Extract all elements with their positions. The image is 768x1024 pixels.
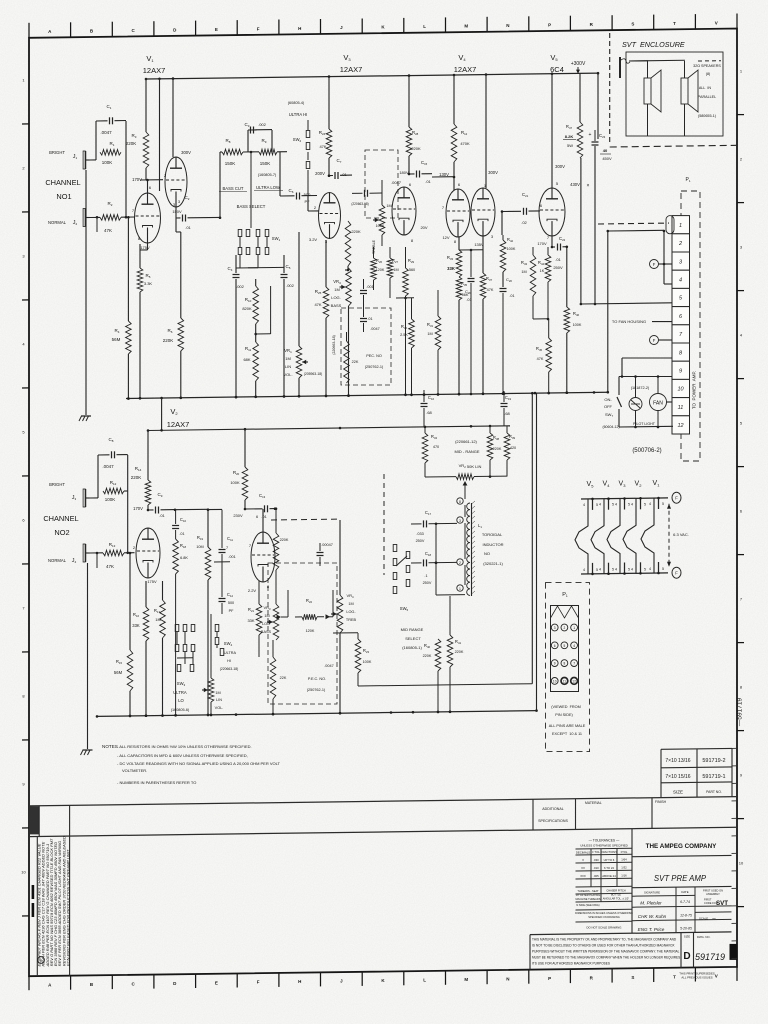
svg-text:PARALLEL: PARALLEL xyxy=(698,95,716,99)
svg-text:3.3K: 3.3K xyxy=(144,281,153,286)
capacitor C15 xyxy=(399,160,432,184)
svg-text:230V: 230V xyxy=(233,513,243,518)
svg-text:F: F xyxy=(653,262,656,267)
additional specifications cell xyxy=(533,799,568,830)
enclosure labels xyxy=(693,61,721,118)
svg-text:47K: 47K xyxy=(487,288,494,292)
svg-text:MACHINE THREADS: MACHINE THREADS xyxy=(575,897,600,901)
svg-text:BRIGHT: BRIGHT xyxy=(49,482,65,487)
svg-text:5: 5 xyxy=(662,567,664,571)
svg-text:+: + xyxy=(589,132,592,138)
svg-text:(500706-2): (500706-2) xyxy=(632,448,661,454)
resistor R2 xyxy=(90,152,135,233)
svg-text:.001: .001 xyxy=(228,555,235,559)
svg-text:2: 2 xyxy=(678,241,682,247)
svg-text:ULTRA LOW: ULTRA LOW xyxy=(256,185,280,190)
capacitor C6 xyxy=(280,152,317,204)
svg-text:LOG.: LOG. xyxy=(331,295,341,300)
wire pin5 feed xyxy=(580,146,672,305)
svg-text:591719-2: 591719-2 xyxy=(702,758,725,764)
svg-text:5-20-85: 5-20-85 xyxy=(680,927,692,931)
svg-text:47K: 47K xyxy=(319,144,326,149)
svg-text:PURPOSES WITHOUT THE WRITTEN P: PURPOSES WITHOUT THE WRITTEN PERMISSION … xyxy=(532,950,680,954)
resistor R13 xyxy=(90,491,135,569)
svg-text:VOL.: VOL. xyxy=(215,706,224,710)
svg-text:ULTRA: ULTRA xyxy=(224,651,237,655)
svg-text:47K: 47K xyxy=(106,564,114,569)
capacitor .01 node xyxy=(360,305,373,332)
svg-text:HI: HI xyxy=(227,659,231,663)
svg-text:BASS: BASS xyxy=(261,630,272,634)
svg-text:180V: 180V xyxy=(399,170,409,175)
svg-text:LIN: LIN xyxy=(285,364,291,369)
spec band top line xyxy=(29,797,737,806)
svg-text:ITS USE FOR AUTHORIZED MAGNAVO: ITS USE FOR AUTHORIZED MAGNAVOX PURPOSES xyxy=(532,962,610,966)
svg-text:250V: 250V xyxy=(423,581,432,585)
svg-text:(220663-18): (220663-18) xyxy=(332,335,336,355)
svg-text:430V: 430V xyxy=(570,182,580,187)
svg-text:BRIGHT: BRIGHT xyxy=(49,150,65,155)
svg-text:47K: 47K xyxy=(104,228,112,233)
svg-text:4: 4 xyxy=(573,644,575,648)
svg-text:1/16: 1/16 xyxy=(621,874,627,878)
svg-text:420: 420 xyxy=(510,446,516,450)
svg-text:220K: 220K xyxy=(411,146,421,151)
capacitor .0047 treble ch1 xyxy=(351,180,401,206)
svg-text:PF: PF xyxy=(229,609,235,613)
speaker right xyxy=(629,60,698,136)
svg-text:591719: 591719 xyxy=(695,952,725,962)
material cell xyxy=(576,799,602,830)
svg-text:.001: .001 xyxy=(366,285,373,289)
resistor R30 xyxy=(396,297,414,396)
svg-text:9: 9 xyxy=(679,369,682,375)
svg-text:1M: 1M xyxy=(348,602,353,606)
svg-text:5: 5 xyxy=(662,502,664,506)
capacitor C9 xyxy=(148,492,176,518)
svg-text:6: 6 xyxy=(554,644,556,648)
label CHANNEL NO2 xyxy=(43,514,78,537)
legal block xyxy=(530,932,738,970)
svg-text:T: T xyxy=(673,21,676,26)
potentiometer VR4 treble ch2 xyxy=(331,520,357,715)
svg-text:12AX7: 12AX7 xyxy=(340,65,363,74)
tube V2 second triode xyxy=(248,509,275,593)
svg-text:2.2V: 2.2V xyxy=(248,588,257,593)
svg-text:12AX7: 12AX7 xyxy=(167,420,190,429)
resistor R40 xyxy=(423,595,441,713)
svg-text:(160805-7): (160805-7) xyxy=(258,173,277,177)
svg-text:4: 4 xyxy=(679,278,682,284)
svg-text:(320221-1): (320221-1) xyxy=(483,561,503,566)
jack J2 xyxy=(48,209,89,227)
capacitor .00047 ch2 xyxy=(317,543,333,566)
svg-text:4: 4 xyxy=(599,503,601,507)
svg-text:BASS CUT: BASS CUT xyxy=(223,186,244,191)
resistor R5 xyxy=(137,243,152,400)
resistor 220K V3 cathode follower xyxy=(345,221,361,270)
svg-text:220K: 220K xyxy=(423,654,432,658)
svg-text:ECN-P807 RELEASED FOR PRODUCTI: ECN-P807 RELEASED FOR PRODUCTION SVT PRE… xyxy=(66,849,71,966)
svg-text:N: N xyxy=(506,976,509,981)
resistor R31 xyxy=(427,290,441,396)
svg-text:ULTRA HI: ULTRA HI xyxy=(289,112,308,117)
svg-text:.01: .01 xyxy=(509,294,514,298)
svg-text:5: 5 xyxy=(644,502,646,506)
svg-text:8: 8 xyxy=(459,500,461,504)
svg-text:4: 4 xyxy=(583,503,585,507)
resistor R14 xyxy=(131,431,151,512)
svg-text:(220661-12): (220661-12) xyxy=(455,439,477,444)
wire SW3 drops ch2 xyxy=(177,632,193,664)
svg-text:12V: 12V xyxy=(442,235,449,240)
svg-text:6-7-74: 6-7-74 xyxy=(680,900,690,904)
capacitor C23 xyxy=(589,130,612,304)
svg-text:7: 7 xyxy=(573,662,575,666)
svg-text:± TOL: ± TOL xyxy=(592,850,600,854)
capacitor C21 xyxy=(501,192,540,235)
svg-text:(250762-1): (250762-1) xyxy=(307,688,326,692)
svg-text:CHANNEL: CHANNEL xyxy=(45,178,80,187)
label 300V V5 xyxy=(552,74,565,188)
svg-text:.01: .01 xyxy=(466,298,471,302)
svg-text:1M: 1M xyxy=(393,268,398,272)
svg-text:120K: 120K xyxy=(306,629,315,633)
svg-text:220K: 220K xyxy=(126,141,137,146)
long vertical mix line B xyxy=(535,393,538,712)
svg-text:450V: 450V xyxy=(602,156,612,161)
svg-text:S: S xyxy=(631,21,634,26)
resistor R20 xyxy=(230,429,247,509)
svg-text:DWG. NO.: DWG. NO. xyxy=(697,935,711,939)
svg-text:N SIDE (SEE DWG): N SIDE (SEE DWG) xyxy=(576,903,599,907)
resistor R9 xyxy=(243,138,287,166)
svg-text:PART NO.: PART NO. xyxy=(706,790,722,794)
svg-text:3.2V: 3.2V xyxy=(309,237,318,242)
svg-text:F: F xyxy=(675,496,678,501)
capacitor C16 xyxy=(421,390,435,427)
resistor R6 xyxy=(163,232,184,399)
capacitor C20 xyxy=(500,277,515,395)
dashed box tone ch2 xyxy=(268,563,337,704)
svg-text:.0047: .0047 xyxy=(370,327,380,331)
svg-text:D: D xyxy=(683,951,690,962)
label 430V xyxy=(570,182,589,189)
svg-text:4: 4 xyxy=(649,567,651,571)
svg-text:6.3 VAC.: 6.3 VAC. xyxy=(673,532,689,537)
capacitor C20b xyxy=(459,249,483,394)
svg-text:SIZE: SIZE xyxy=(673,790,683,795)
svg-text:12AX7: 12AX7 xyxy=(454,65,477,74)
svg-text:NO1: NO1 xyxy=(56,192,71,201)
svg-text:250V: 250V xyxy=(416,539,425,543)
jack J1 xyxy=(49,150,89,169)
svg-text:40: 40 xyxy=(603,148,608,153)
svg-text:.002: .002 xyxy=(258,122,267,127)
svg-text:UP TO 6: UP TO 6 xyxy=(604,858,615,862)
svg-text:X: X xyxy=(582,858,584,862)
svg-text:1/64: 1/64 xyxy=(621,858,627,862)
svg-text:PF: PF xyxy=(304,199,310,204)
resistor R39 xyxy=(504,426,516,477)
svg-text:PEC. NO: PEC. NO xyxy=(366,354,382,358)
svg-text:12: 12 xyxy=(572,680,576,684)
long vertical mix line A xyxy=(531,392,534,684)
svg-text:EXCEPT 10 & 11: EXCEPT 10 & 11 xyxy=(552,732,582,736)
svg-text:470: 470 xyxy=(433,445,439,449)
svg-text:INDUCTOR: INDUCTOR xyxy=(482,542,503,547)
svg-text:FIRST USED ON: FIRST USED ON xyxy=(703,889,723,893)
svg-text:300V: 300V xyxy=(181,150,191,155)
switch SW7 xyxy=(602,397,621,429)
svg-text:6.8K: 6.8K xyxy=(180,556,188,560)
svg-text:7×10 13/16: 7×10 13/16 xyxy=(665,758,690,764)
svg-text:100K: 100K xyxy=(507,247,516,251)
label 170V ch2 xyxy=(133,506,143,511)
resistor R41 xyxy=(447,596,464,713)
svg-text:150K: 150K xyxy=(225,161,236,166)
resistor R26 xyxy=(371,247,385,290)
svg-text:820K: 820K xyxy=(242,306,252,311)
svg-text:220K: 220K xyxy=(163,338,174,343)
capacitor C3 xyxy=(245,122,272,152)
label 300V V4 xyxy=(486,75,498,189)
svg-text:1M: 1M xyxy=(334,287,340,292)
svg-text:1: 1 xyxy=(459,587,461,591)
resistor R8 xyxy=(220,138,243,218)
svg-text:DO NOT SCALE DRAWING: DO NOT SCALE DRAWING xyxy=(587,926,622,930)
svg-text:33K: 33K xyxy=(447,266,455,271)
tube V5 6C4 xyxy=(537,181,565,246)
svg-text:10: 10 xyxy=(21,870,26,875)
wire V1 plate risers xyxy=(160,79,174,191)
label TO POWER AMP xyxy=(692,371,697,409)
capacitor C1 xyxy=(90,104,127,160)
svg-text:∼: ∼ xyxy=(712,916,716,922)
resistor R19 xyxy=(175,508,211,716)
svg-text:FIRST: FIRST xyxy=(704,897,712,901)
capacitor C17 xyxy=(411,510,457,543)
resistor R12 bright2 xyxy=(103,480,128,502)
svg-text:1: 1 xyxy=(573,626,575,630)
svg-text:5W: 5W xyxy=(567,143,573,148)
svg-text:BOTTLE: BOTTLE xyxy=(611,892,621,896)
svg-text:XXX: XXX xyxy=(580,874,586,878)
svg-text:.0047: .0047 xyxy=(324,664,334,668)
svg-text:— TOLERANCES —: — TOLERANCES — xyxy=(589,839,620,843)
signature block xyxy=(632,887,732,933)
svg-text:300V: 300V xyxy=(555,164,565,169)
svg-text:(8): (8) xyxy=(706,72,711,76)
tube V5 label xyxy=(550,53,564,74)
svg-text:F: F xyxy=(675,571,678,576)
svg-text:5: 5 xyxy=(628,503,630,507)
svg-text:FIT AFTER PLATING: FIT AFTER PLATING xyxy=(576,893,601,897)
resistor R23 xyxy=(333,633,532,686)
svg-text:100K: 100K xyxy=(105,497,116,502)
svg-text:5: 5 xyxy=(644,567,646,571)
svg-text:1M: 1M xyxy=(285,356,291,361)
svg-text:.00047: .00047 xyxy=(321,543,333,547)
tube V1 first triode xyxy=(132,185,161,250)
svg-text:175V: 175V xyxy=(140,245,150,250)
wire pilot bottom xyxy=(619,426,673,429)
svg-text:SVT: SVT xyxy=(716,900,728,907)
svg-text:ULTRA: ULTRA xyxy=(173,690,187,695)
svg-text:F: F xyxy=(257,980,260,985)
svg-text:MUST BE RETURNED TO THE MAGNAV: MUST BE RETURNED TO THE MAGNAVOX COMPANY… xyxy=(532,956,680,960)
svg-text:NORMAL: NORMAL xyxy=(48,220,67,225)
label PEC ch1 xyxy=(365,327,384,369)
resistor R4 xyxy=(112,216,132,400)
svg-text:SVT PRE AMP: SVT PRE AMP xyxy=(654,874,707,883)
svg-text:V: V xyxy=(715,20,718,25)
svg-text:L: L xyxy=(423,24,426,29)
svg-text:F: F xyxy=(257,26,260,31)
svg-text:DECIMALS: DECIMALS xyxy=(576,850,590,854)
labels bass select xyxy=(219,173,283,209)
revision header cell xyxy=(30,805,70,836)
svg-text:DIMENSIONS IN INCHES UNLESS OT: DIMENSIONS IN INCHES UNLESS OTHERWISE xyxy=(575,911,633,915)
svg-text:100K: 100K xyxy=(102,160,113,165)
svg-text:250V: 250V xyxy=(553,265,563,270)
resistor R42 xyxy=(500,235,516,287)
svg-text:1: 1 xyxy=(679,223,682,229)
resistor R29 xyxy=(403,247,415,396)
svg-text:SELECT: SELECT xyxy=(405,636,421,641)
svg-text:1M: 1M xyxy=(155,617,161,622)
wire J2 ground drop xyxy=(86,170,98,415)
svg-text:SPECIFICATIONS: SPECIFICATIONS xyxy=(538,819,568,823)
svg-text:2.5K: 2.5K xyxy=(400,333,408,337)
resistor R38 xyxy=(487,426,502,477)
resistor R45 xyxy=(536,319,552,394)
svg-text:E: E xyxy=(215,980,218,985)
svg-text:32Ω SPEAKERS: 32Ω SPEAKERS xyxy=(693,64,721,68)
potentiometer VR2 xyxy=(425,463,507,499)
svg-text:M: M xyxy=(464,24,468,29)
wire J4 ground xyxy=(0,0,1,1)
tube V1 second triode xyxy=(164,157,187,207)
svg-text:ABOVE 24: ABOVE 24 xyxy=(602,874,616,878)
svg-text:220K: 220K xyxy=(455,650,464,654)
svg-text:.01: .01 xyxy=(179,532,184,536)
jack J4 xyxy=(48,544,89,564)
svg-text:.01: .01 xyxy=(367,317,372,321)
svg-text:8: 8 xyxy=(564,662,566,666)
svg-text:5: 5 xyxy=(612,568,614,572)
svg-text:(580655-1): (580655-1) xyxy=(698,114,716,118)
wire V3a grid xyxy=(308,196,319,211)
resistor R35 xyxy=(456,277,469,395)
svg-text:170V: 170V xyxy=(537,241,547,246)
potentiometer treble ch1 xyxy=(372,180,392,254)
svg-text:220K: 220K xyxy=(351,229,361,234)
switch SW2 xyxy=(288,101,310,169)
svg-text:ADDITIONAL: ADDITIONAL xyxy=(542,807,564,811)
svg-text:E: E xyxy=(215,27,218,32)
svg-text:5: 5 xyxy=(612,503,614,507)
capacitor C8 xyxy=(90,437,128,498)
tube V3 label xyxy=(340,53,363,74)
svg-text:4: 4 xyxy=(615,503,617,507)
svg-text:150V: 150V xyxy=(172,209,182,214)
label mid range select xyxy=(401,627,424,650)
svg-text:DATE: DATE xyxy=(681,890,688,894)
svg-text:.01: .01 xyxy=(261,514,267,519)
svg-text:TO POWER AMP.: TO POWER AMP. xyxy=(692,371,697,409)
connector P1 side view xyxy=(666,177,700,461)
inductor L1 labels xyxy=(478,523,504,566)
resistor R28 xyxy=(406,76,421,173)
svg-text:7×10 15/16: 7×10 15/16 xyxy=(665,774,690,780)
label +300V xyxy=(571,61,586,74)
inductor L1 xyxy=(457,498,475,596)
svg-text:.68: .68 xyxy=(426,410,432,415)
svg-text:10: 10 xyxy=(677,387,684,393)
svg-text:1K: 1K xyxy=(540,269,545,273)
svg-text:.033: .033 xyxy=(416,532,423,536)
svg-text:BASS: BASS xyxy=(331,303,342,308)
svg-text:M: M xyxy=(464,977,468,982)
svg-text:SIZE: SIZE xyxy=(684,935,690,939)
svg-text:.02: .02 xyxy=(521,220,527,225)
svg-text:ENG T. Price: ENG T. Price xyxy=(638,927,665,932)
svg-text:ALL PREVIOUS ISSUES: ALL PREVIOUS ISSUES xyxy=(681,975,712,979)
svg-text:7: 7 xyxy=(226,546,228,550)
svg-text:N: N xyxy=(506,23,509,28)
svg-text:±TOL: ±TOL xyxy=(621,850,628,854)
capacitor C13 xyxy=(233,493,276,519)
svg-text:5: 5 xyxy=(596,568,598,572)
svg-text:FAN: FAN xyxy=(653,401,663,407)
resistor R47 xyxy=(563,73,583,158)
svg-text:LIN: LIN xyxy=(216,698,222,702)
finish cell xyxy=(652,798,667,829)
svg-text:FRACTIONS: FRACTIONS xyxy=(601,850,617,854)
speaker left xyxy=(644,61,661,136)
wire junction pin1 drop xyxy=(607,230,666,394)
resistor 220K ch2 xyxy=(273,507,289,590)
svg-text:SPECIFIED ON DRAWING: SPECIFIED ON DRAWING xyxy=(588,915,619,919)
dashed wire to treble ch2 xyxy=(271,518,340,521)
svg-text:47K: 47K xyxy=(537,357,544,361)
svg-text:NOTES: NOTES xyxy=(102,744,118,749)
svg-text:MATERIAL: MATERIAL xyxy=(585,801,602,805)
capacitor C7 xyxy=(328,158,352,179)
svg-text:.01: .01 xyxy=(341,172,347,177)
svg-text:10M: 10M xyxy=(196,545,203,549)
svg-text:150K: 150K xyxy=(260,161,271,166)
size part-no table xyxy=(661,748,732,797)
svg-text:1M: 1M xyxy=(264,614,269,618)
svg-text:- NUMBERS IN PARENTHESES REFER: - NUMBERS IN PARENTHESES REFER TO xyxy=(117,780,196,785)
tube V3 first triode xyxy=(309,193,341,245)
resistor R3 xyxy=(126,79,149,180)
svg-text:200V: 200V xyxy=(315,171,325,176)
svg-text:4: 4 xyxy=(631,502,633,506)
svg-text:11: 11 xyxy=(563,680,567,684)
svg-text:470K: 470K xyxy=(460,141,470,146)
capacitor C2 xyxy=(172,195,221,230)
notes xyxy=(102,744,281,785)
heater wiring diagram xyxy=(575,480,689,578)
enclosure input terminal xyxy=(620,57,648,78)
svg-text:4: 4 xyxy=(631,567,633,571)
svg-text:LOG-: LOG- xyxy=(346,610,356,614)
tube V4 first triode xyxy=(442,182,470,244)
SVT enclosure box xyxy=(610,33,737,147)
